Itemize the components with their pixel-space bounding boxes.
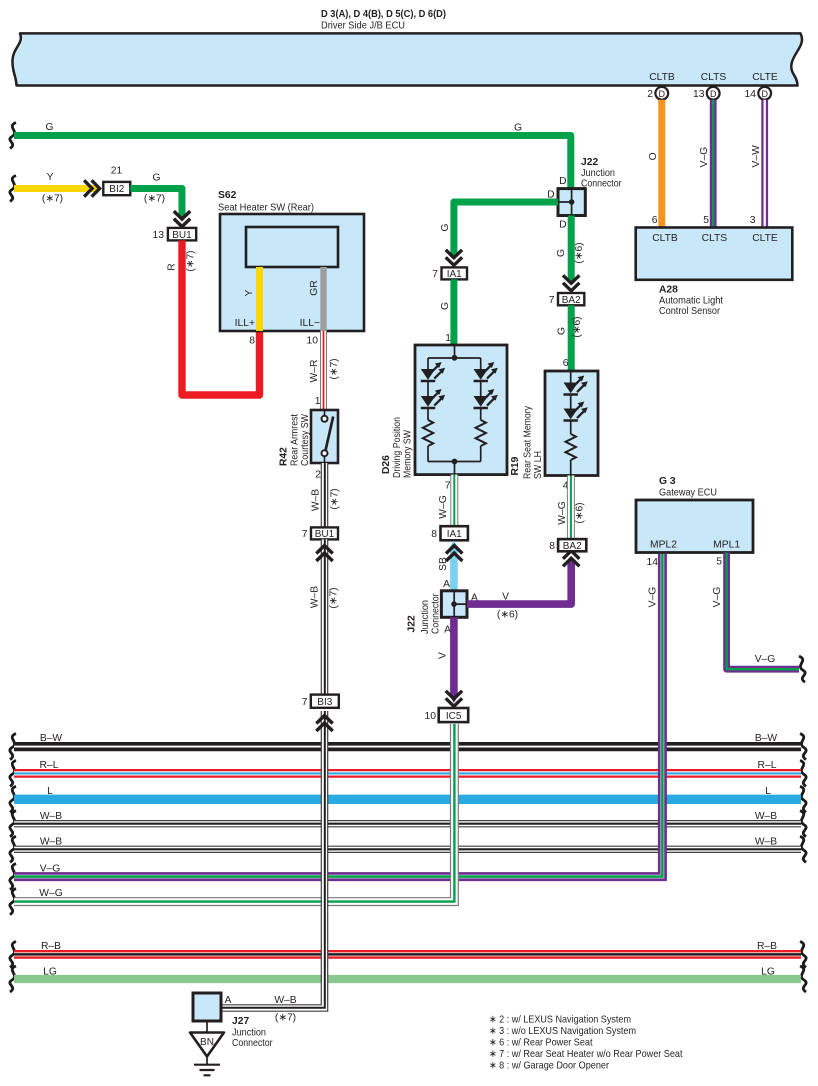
svg-text:ILL+: ILL+ <box>235 318 255 329</box>
svg-text:∗ 8 : w/ Garage Door Opener: ∗ 8 : w/ Garage Door Opener <box>489 1061 610 1072</box>
svg-text:21: 21 <box>111 166 123 177</box>
ground BN <box>190 1021 224 1075</box>
svg-text:Junction: Junction <box>581 168 615 179</box>
svg-text:W–B: W–B <box>311 489 322 511</box>
svg-text:6: 6 <box>652 215 658 226</box>
bus L <box>10 786 806 812</box>
bus W-B (2) <box>10 836 806 862</box>
svg-text:J22: J22 <box>407 615 418 632</box>
svg-text:7: 7 <box>549 295 555 306</box>
svg-text:D: D <box>659 89 666 99</box>
svg-text:7: 7 <box>302 697 308 708</box>
svg-text:W–B: W–B <box>755 811 777 822</box>
svg-text:∗ 7 : w/ Rear Seat Heater w/o: ∗ 7 : w/ Rear Seat Heater w/o Rear Power… <box>489 1049 683 1060</box>
svg-text:∗ 2 : w/ LEXUS Navigation Syst: ∗ 2 : w/ LEXUS Navigation System <box>489 1015 631 1026</box>
svg-text:BU1: BU1 <box>315 529 335 540</box>
svg-text:R–B: R–B <box>757 941 777 952</box>
wire W-B from BU1 to BI3 <box>310 539 340 694</box>
svg-text:IC5: IC5 <box>446 711 462 722</box>
svg-text:W–B: W–B <box>40 811 62 822</box>
svg-text:G 3: G 3 <box>659 476 676 487</box>
connector BI2 pin 21 <box>103 166 130 196</box>
svg-text:BA2: BA2 <box>562 295 581 306</box>
svg-text:Automatic Light: Automatic Light <box>659 296 723 307</box>
svg-text:13: 13 <box>693 89 705 100</box>
bus W-G joining IC5 pin 10 <box>10 724 455 915</box>
wire V-W from CLTE to A28 pin 3 <box>750 100 765 228</box>
bus B-W <box>10 733 806 760</box>
svg-text:A: A <box>225 995 232 1006</box>
svg-text:CLTB: CLTB <box>652 233 678 244</box>
connector BI3 pin 7 <box>302 695 339 708</box>
svg-text:(∗7): (∗7) <box>329 587 340 608</box>
svg-text:J22: J22 <box>581 157 598 168</box>
svg-text:BA2: BA2 <box>563 541 582 552</box>
svg-text:CLTE: CLTE <box>752 233 778 244</box>
svg-text:(∗7): (∗7) <box>275 1013 296 1024</box>
svg-text:IA1: IA1 <box>447 529 462 540</box>
svg-text:R: R <box>167 263 178 270</box>
svg-text:Control Sensor: Control Sensor <box>659 306 721 317</box>
ECU G3 Gateway ECU <box>636 476 753 568</box>
svg-text:J27: J27 <box>232 1016 249 1027</box>
wire V-G from G3 MPL1 pin 5 to right edge <box>712 553 805 683</box>
connector BA2 pin 8 <box>549 539 586 552</box>
svg-text:A: A <box>443 579 450 590</box>
svg-text:1: 1 <box>315 396 321 407</box>
svg-text:D: D <box>761 89 768 99</box>
svg-text:GR: GR <box>309 280 320 295</box>
svg-text:Connector: Connector <box>431 593 442 634</box>
svg-text:6: 6 <box>563 358 569 369</box>
svg-text:L: L <box>765 786 771 797</box>
svg-text:L: L <box>47 786 53 797</box>
svg-text:BI3: BI3 <box>317 697 332 708</box>
svg-text:A: A <box>444 625 451 636</box>
svg-text:BU1: BU1 <box>172 230 192 241</box>
svg-text:7: 7 <box>302 529 308 540</box>
svg-text:(∗7): (∗7) <box>42 194 63 205</box>
svg-text:Driver Side J/B ECU: Driver Side J/B ECU <box>321 21 405 32</box>
switch S62 Seat Heater SW (Rear) <box>218 190 364 347</box>
svg-text:R–L: R–L <box>40 760 59 771</box>
svg-text:8: 8 <box>431 529 437 540</box>
svg-text:10: 10 <box>425 711 437 722</box>
connector IA1 pin 8 <box>431 526 468 540</box>
wire O from CLTB to A28 pin 6 <box>648 100 662 228</box>
bus R-L <box>10 760 806 786</box>
svg-text:W–B: W–B <box>755 837 777 848</box>
svg-text:(∗6): (∗6) <box>575 502 586 523</box>
junction connector J27 <box>193 993 273 1049</box>
svg-text:∗ 6 : w/ Rear Power Seat: ∗ 6 : w/ Rear Power Seat <box>489 1038 593 1049</box>
bus W-B (1) <box>10 811 806 837</box>
svg-text:(∗7): (∗7) <box>329 358 340 379</box>
svg-text:CLTE: CLTE <box>752 72 778 83</box>
svg-text:V–G: V–G <box>648 587 659 608</box>
connector BU1 pin 13 <box>153 228 197 241</box>
wire V from J22 (A) to BA2 pin 8 <box>467 551 579 621</box>
svg-text:W–G: W–G <box>39 888 62 899</box>
svg-text:Driving Position: Driving Position <box>392 417 403 478</box>
svg-text:R42: R42 <box>279 447 290 466</box>
svg-text:(∗6): (∗6) <box>574 242 585 263</box>
svg-text:V–G: V–G <box>712 587 723 608</box>
wire G from BA2 to R19 pin 6 <box>557 305 584 371</box>
svg-text:LG: LG <box>761 967 775 978</box>
connector IC5 pin 10 <box>425 708 469 722</box>
svg-text:Connector: Connector <box>232 1038 273 1049</box>
svg-text:ILL−: ILL− <box>300 318 320 329</box>
svg-text:5: 5 <box>703 215 709 226</box>
svg-text:G: G <box>440 302 451 310</box>
svg-text:14: 14 <box>647 557 659 568</box>
svg-text:2: 2 <box>315 470 321 481</box>
svg-text:W–B: W–B <box>40 837 62 848</box>
svg-text:(∗6): (∗6) <box>572 316 583 337</box>
svg-text:R19: R19 <box>510 456 521 475</box>
switch R42 Rear Armrest Courtesy SW <box>279 410 339 481</box>
svg-text:R–L: R–L <box>758 760 777 771</box>
svg-text:B–W: B–W <box>40 733 63 744</box>
svg-text:G: G <box>556 249 567 257</box>
svg-text:BI2: BI2 <box>109 184 124 195</box>
svg-text:D26: D26 <box>381 455 392 474</box>
wire G from BI2 to BU1 <box>130 173 190 227</box>
svg-text:D 3(A), D 4(B), D 5(C), D 6(D): D 3(A), D 4(B), D 5(C), D 6(D) <box>321 9 446 20</box>
connector BU1 pin 7 <box>302 527 338 540</box>
svg-text:MPL2: MPL2 <box>650 540 677 551</box>
svg-text:D: D <box>559 176 566 187</box>
svg-text:(∗7): (∗7) <box>144 194 165 205</box>
svg-text:G: G <box>152 173 160 184</box>
svg-text:V–G: V–G <box>699 147 710 168</box>
wire W-B from R42 pin 2 to BU1 pin 7 <box>311 463 341 527</box>
svg-text:Courtesy SW: Courtesy SW <box>300 414 311 466</box>
svg-text:Seat Heater SW (Rear): Seat Heater SW (Rear) <box>218 203 314 214</box>
svg-text:5: 5 <box>716 557 722 568</box>
svg-text:CLTB: CLTB <box>649 72 675 83</box>
svg-text:8: 8 <box>249 336 255 347</box>
svg-text:SB: SB <box>438 557 449 571</box>
wire W-G from D26 pin 7 to IA1 pin 8 <box>438 475 454 527</box>
svg-text:7: 7 <box>432 269 438 280</box>
svg-text:∗ 3 : w/o LEXUS Navigation Sys: ∗ 3 : w/o LEXUS Navigation System <box>489 1026 636 1037</box>
bus R-B <box>10 941 806 967</box>
bus LG <box>10 966 806 992</box>
wire G from J22 bottom to BA2 pin 7 <box>556 216 585 291</box>
svg-text:V: V <box>502 592 509 603</box>
svg-text:MPL1: MPL1 <box>713 540 740 551</box>
connector D pin 2 (CLTB) <box>647 87 668 100</box>
wire G from J22 left to IA1 pin 7 <box>440 202 558 265</box>
svg-text:SW LH: SW LH <box>533 451 544 479</box>
bus V-G joining G3 MPL2 pin 14 <box>10 554 663 890</box>
svg-text:3: 3 <box>750 215 756 226</box>
wire W-R from S62 ILL- to R42 pin 1 <box>309 331 340 410</box>
svg-text:LG: LG <box>43 967 57 978</box>
svg-text:V–G: V–G <box>755 654 776 665</box>
svg-text:(∗7): (∗7) <box>186 250 197 271</box>
svg-text:W–G: W–G <box>557 501 568 524</box>
svg-text:W–B: W–B <box>310 586 321 608</box>
svg-text:BN: BN <box>200 1037 214 1048</box>
svg-text:Memory SW: Memory SW <box>403 430 414 478</box>
svg-text:G: G <box>514 123 522 134</box>
svg-text:13: 13 <box>153 230 165 241</box>
wire W-G from R19 pin 4 to BA2 pin 8 <box>557 476 586 540</box>
svg-text:A28: A28 <box>659 285 678 296</box>
svg-text:D: D <box>559 220 566 231</box>
svg-text:(∗6): (∗6) <box>497 610 518 621</box>
svg-text:2: 2 <box>647 89 653 100</box>
svg-text:CLTS: CLTS <box>702 233 728 244</box>
svg-text:R–B: R–B <box>41 941 61 952</box>
wire SB from IA1 to J22 (A) <box>438 541 462 591</box>
svg-text:1: 1 <box>445 333 451 344</box>
wire V-G from CLTS to A28 pin 5 <box>699 100 713 228</box>
svg-text:B–W: B–W <box>755 733 778 744</box>
connector IA1 pin 7 <box>432 267 467 280</box>
connector BA2 pin 7 <box>549 293 585 306</box>
svg-text:S62: S62 <box>218 190 237 201</box>
LED array R19 Rear Seat Memory SW LH <box>510 371 598 492</box>
wire G from IA1 to D26 pin 1 <box>440 279 454 345</box>
svg-text:W–R: W–R <box>309 360 320 383</box>
wire Y (*7) <box>10 172 102 205</box>
svg-text:(∗7): (∗7) <box>330 488 341 509</box>
svg-text:G: G <box>557 327 568 335</box>
svg-text:W–B: W–B <box>274 995 296 1006</box>
svg-text:Junction: Junction <box>420 600 431 634</box>
svg-text:V–G: V–G <box>40 864 61 875</box>
J/B ECU band D <box>12 33 802 85</box>
wire V from J22 (A) down to IC5 pin 10 <box>438 617 463 706</box>
sensor A28 Automatic Light Control Sensor <box>636 228 793 318</box>
svg-text:Gateway ECU: Gateway ECU <box>659 488 717 499</box>
svg-text:Rear Seat Memory: Rear Seat Memory <box>523 405 534 479</box>
svg-text:CLTS: CLTS <box>701 72 727 83</box>
svg-text:10: 10 <box>307 336 319 347</box>
connector D pin 13 (CLTS) <box>693 87 720 100</box>
svg-text:D: D <box>710 89 717 99</box>
wire R from BU1 to S62 ILL+ <box>167 240 260 395</box>
svg-text:W–G: W–G <box>438 495 449 518</box>
title Driver Side J/B ECU <box>321 9 446 32</box>
svg-text:O: O <box>648 152 659 160</box>
junction connector J22 (net A) <box>407 591 479 636</box>
svg-text:G: G <box>440 223 451 231</box>
svg-text:Junction: Junction <box>232 1028 266 1039</box>
svg-text:Y: Y <box>244 289 255 296</box>
wire G main from J/B ECU to J22 <box>10 122 571 189</box>
svg-text:Rear Armrest: Rear Armrest <box>290 414 301 466</box>
notes <box>489 1015 683 1072</box>
svg-text:Connector: Connector <box>581 179 622 190</box>
svg-text:Y: Y <box>47 172 54 183</box>
svg-text:7: 7 <box>445 481 451 492</box>
svg-text:8: 8 <box>549 541 555 552</box>
LED array D26 Driving Position Memory SW <box>381 345 507 492</box>
wire W-B from BI3 down to J27 (A) <box>221 711 333 1024</box>
svg-text:IA1: IA1 <box>447 269 462 280</box>
junction connector J22 (net D) <box>547 157 622 231</box>
connector D pin 14 (CLTE) <box>745 87 772 100</box>
svg-text:14: 14 <box>745 89 757 100</box>
svg-text:V–W: V–W <box>751 145 762 168</box>
svg-text:G: G <box>45 122 53 133</box>
svg-text:V: V <box>438 652 449 659</box>
